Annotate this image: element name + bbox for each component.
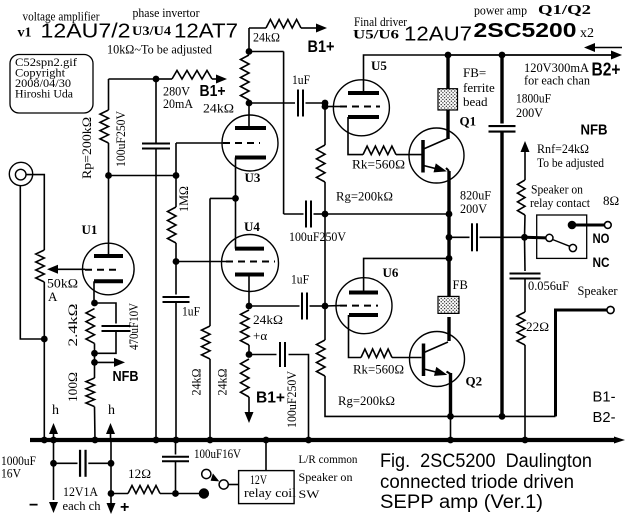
svg-text:B1+: B1+ bbox=[308, 37, 335, 56]
node bus 100uF250V bbox=[305, 437, 312, 444]
node V5 grid coupling bbox=[322, 100, 329, 107]
capacitor 820uF 200V bbox=[472, 223, 477, 251]
relay common contact circle bbox=[546, 234, 553, 241]
label 470uF10V rotated bbox=[126, 302, 141, 350]
ground bus rail bbox=[30, 438, 616, 442]
wire V3 plate lead bbox=[248, 103, 250, 128]
wire V6 plate feed bbox=[364, 258, 449, 292]
svg-text:U6: U6 bbox=[383, 265, 399, 280]
svg-text:12AU7/2: 12AU7/2 bbox=[41, 21, 131, 43]
wire NFB node to 0.056uF bbox=[524, 237, 527, 271]
wire Q1 emitter rail bbox=[447, 171, 450, 214]
relay NC contact circle bbox=[569, 244, 576, 251]
label B2+ bbox=[592, 60, 621, 80]
svg-text:To be adjusted: To be adjusted bbox=[537, 155, 604, 170]
node 1800uF junction bbox=[499, 52, 506, 59]
label NFB right bbox=[581, 122, 608, 139]
label minus bbox=[29, 497, 38, 514]
capacitor 100uF16V bbox=[162, 457, 189, 462]
switch wire terminal bbox=[199, 488, 209, 498]
wire pot bottom bbox=[43, 282, 45, 440]
wire output rail 3 bbox=[447, 258, 450, 297]
label 12AU7/2 bbox=[41, 21, 131, 43]
wire jack hot to pot bbox=[26, 175, 44, 250]
node V4 grid junction bbox=[173, 258, 180, 265]
label B1+ top bbox=[308, 37, 335, 56]
wire Rnf to node bbox=[524, 215, 527, 237]
node V3 plate junction bbox=[246, 100, 253, 107]
wire link to ground bus bbox=[450, 416, 452, 440]
label Q1 designator bbox=[460, 114, 477, 129]
label 22 ohm bbox=[526, 319, 549, 334]
wire cap left lead bbox=[284, 213, 304, 215]
label 12AU7 bbox=[404, 24, 472, 46]
wire main B2+ rail bbox=[448, 54, 611, 56]
node 2.4k bottom junction bbox=[91, 350, 98, 357]
node bus junction below Q2 bbox=[447, 437, 454, 444]
transistor Q1 2SC5200 bbox=[409, 128, 464, 183]
label SW bbox=[299, 487, 321, 501]
wire 820uF left lead bbox=[449, 236, 470, 238]
node 1000uF right junction bbox=[108, 460, 115, 467]
wire bead to Q2 collector bbox=[447, 317, 450, 341]
wire cap right lead to node bbox=[314, 213, 326, 215]
capacitor 100uF250V B1 filter bbox=[142, 144, 170, 149]
wire NO to terminal bbox=[576, 224, 604, 227]
svg-text:12AT7: 12AT7 bbox=[174, 21, 238, 43]
node 12 ohm junction bbox=[108, 490, 115, 497]
wire V3 cathode to V4 plate column bbox=[235, 158, 237, 249]
input jack inner bbox=[15, 169, 26, 180]
resistor 2.4k (V1 cathode) bbox=[86, 309, 95, 344]
svg-text:16V: 16V bbox=[1, 466, 22, 481]
label NFB left bbox=[113, 368, 139, 385]
svg-text:h: h bbox=[52, 403, 59, 418]
svg-text:relay contact: relay contact bbox=[530, 195, 590, 210]
label 1uF top bbox=[292, 72, 310, 87]
caption line 3 bbox=[380, 492, 543, 513]
resistor 22 ohm bbox=[517, 312, 525, 345]
wire to B1+ down arrow bbox=[248, 397, 250, 413]
svg-text:Q1/Q2: Q1/Q2 bbox=[538, 2, 591, 17]
wire Q2 emitter drop bbox=[449, 373, 452, 416]
label Rp=200k rotated bbox=[79, 117, 94, 179]
wire 1uF to V5 grid rail bbox=[306, 102, 326, 104]
label Rk=560 (Q1) bbox=[352, 157, 405, 172]
svg-text:U5/U6: U5/U6 bbox=[353, 27, 400, 42]
label bead bbox=[463, 94, 488, 109]
svg-text:B2+: B2+ bbox=[592, 60, 621, 80]
label To be adjusted bbox=[537, 155, 604, 170]
label C52spn2.gif bbox=[15, 55, 77, 69]
label 100ohm rotated bbox=[65, 372, 80, 402]
capacitor 1uF (V4 grid) bbox=[163, 297, 190, 302]
svg-text:2SC5200: 2SC5200 bbox=[474, 20, 577, 42]
label +a bbox=[253, 328, 267, 343]
node NFB takeoff junction bbox=[521, 234, 528, 241]
svg-text:24kΩ: 24kΩ bbox=[253, 312, 283, 327]
wire cap to ground drop bbox=[289, 355, 309, 441]
wire to B1+ arrow bbox=[217, 78, 221, 80]
wire 1uF to x325 node bbox=[310, 305, 326, 307]
node 2.4k top junction bbox=[91, 300, 98, 307]
label 1000uF bbox=[1, 453, 36, 468]
svg-text:22Ω: 22Ω bbox=[526, 319, 549, 334]
label 100uF250V rotated right bbox=[284, 370, 299, 428]
svg-text:v1: v1 bbox=[18, 26, 32, 41]
wire Rg2 bottom corner bbox=[325, 376, 556, 416]
capacitor 0.056uF bbox=[510, 274, 541, 279]
triode V5 bbox=[333, 80, 389, 136]
svg-text:2.4kΩ: 2.4kΩ bbox=[65, 304, 80, 347]
svg-text:Rk=560Ω: Rk=560Ω bbox=[353, 362, 404, 377]
svg-text:A: A bbox=[48, 289, 58, 304]
wire x325 rail upper bbox=[324, 103, 326, 145]
wire x325 to Rg2 bbox=[324, 306, 326, 340]
label U3 designator bbox=[245, 170, 261, 185]
relay NO contact bbox=[568, 221, 577, 230]
wire between junctions bbox=[94, 343, 96, 362]
label 2.4k rotated bbox=[65, 304, 80, 347]
svg-text:24kΩ: 24kΩ bbox=[189, 369, 204, 396]
capacitor 1800uF 200V bbox=[489, 126, 516, 132]
wire 12V plus drop bbox=[110, 440, 112, 503]
svg-text:100uF250V: 100uF250V bbox=[289, 229, 347, 244]
node speaker return junction bbox=[447, 413, 454, 420]
svg-text:B2-: B2- bbox=[593, 409, 616, 426]
label 50k bbox=[47, 276, 78, 291]
node coupling to V3 grid bbox=[173, 172, 180, 179]
svg-text:SW: SW bbox=[299, 487, 321, 501]
wire NFB arrow lead bbox=[524, 152, 526, 181]
arrow NFB (up) bbox=[521, 141, 530, 152]
label Copyright bbox=[15, 66, 66, 80]
wire V5 cathode hook bbox=[348, 117, 363, 155]
svg-text:1uF: 1uF bbox=[291, 272, 309, 287]
wire relay coil to bus bbox=[265, 440, 267, 471]
relay arm bbox=[553, 240, 570, 247]
wire to V4 grid bbox=[176, 261, 226, 263]
svg-text:U1: U1 bbox=[82, 222, 98, 237]
label U3/U4 designator bbox=[132, 23, 172, 38]
wire 12V minus drop bbox=[53, 440, 55, 500]
capacitor 100uF250V (B1 bypass) bbox=[280, 342, 285, 367]
arrow B2+ rail (right) bbox=[611, 51, 622, 60]
svg-text:B1+: B1+ bbox=[200, 83, 226, 100]
switch contact 2 open circle bbox=[219, 480, 228, 489]
wire to 1000uF bbox=[54, 462, 78, 464]
label plus bbox=[120, 499, 129, 516]
svg-text:1uF: 1uF bbox=[182, 304, 200, 319]
label 8 ohm bbox=[603, 193, 619, 208]
capacitor 100uF250V (mid coupling) bbox=[306, 201, 311, 228]
svg-text:100uF250V: 100uF250V bbox=[113, 110, 128, 167]
label NC bbox=[593, 254, 610, 270]
wire 820uF to NFB node bbox=[480, 236, 525, 238]
arrow pot wiper (left) bbox=[47, 265, 85, 274]
svg-text:B1-: B1- bbox=[593, 389, 616, 406]
label 100uF250V rotated left bbox=[113, 110, 128, 167]
wire Rp top bbox=[108, 79, 110, 110]
svg-text:24kΩ: 24kΩ bbox=[253, 30, 280, 45]
label h left bbox=[52, 403, 59, 418]
switch arm arrow bbox=[211, 473, 220, 481]
svg-text:24kΩ: 24kΩ bbox=[215, 369, 230, 396]
label 1uF (V4 grid) bbox=[182, 304, 200, 319]
svg-text:NFB: NFB bbox=[113, 368, 139, 385]
svg-text:12Ω: 12Ω bbox=[128, 466, 151, 481]
ferrite bead FB (Q1) bbox=[438, 89, 458, 110]
label 10k to be adjusted bbox=[107, 42, 212, 57]
label L/R common bbox=[299, 452, 358, 466]
node bootstrap junction bbox=[322, 211, 329, 218]
label Rg=200k (Q2) bbox=[338, 393, 395, 408]
label B1+ bottom bbox=[256, 390, 285, 407]
wire V4 cathode lead bbox=[248, 276, 250, 306]
capacitor 470uF10V bbox=[102, 326, 131, 331]
triode V3 bbox=[222, 115, 278, 171]
wire junction to x283 rail bbox=[249, 51, 284, 53]
node bus x210 bbox=[207, 437, 214, 444]
resistor Rg=200k (V5 grid leak) bbox=[317, 145, 326, 182]
svg-text:12V1A: 12V1A bbox=[63, 484, 99, 499]
wire x156 rail below cap to ground bus bbox=[155, 149, 157, 441]
input jack outer bbox=[9, 162, 32, 185]
svg-text:ferrite: ferrite bbox=[463, 80, 495, 95]
svg-text:24kΩ: 24kΩ bbox=[203, 101, 234, 116]
label B1+ (main) bbox=[200, 83, 226, 100]
wire 1uF cap bottom to ground bus bbox=[175, 302, 177, 440]
label 24k plate load bbox=[203, 101, 234, 116]
wire top 24k right lead bbox=[301, 27, 316, 29]
label B2- bbox=[593, 409, 616, 426]
node bus x176 bbox=[173, 437, 180, 444]
node cathode divider junction bbox=[246, 351, 253, 358]
wire to 470uF top bbox=[95, 303, 117, 324]
arrow heater h right (up) bbox=[106, 423, 115, 438]
wire x210 top bbox=[209, 198, 211, 326]
label v1 designator bbox=[18, 26, 32, 41]
node V6 plate junction bbox=[446, 255, 453, 262]
wire 100ohm top bbox=[94, 362, 96, 378]
wire 1000uF to plus line bbox=[88, 462, 111, 464]
wire between cathode resistors bbox=[248, 345, 250, 355]
svg-text:0.056uF: 0.056uF bbox=[528, 278, 569, 293]
label 16V bbox=[1, 466, 22, 481]
label relay contact bbox=[530, 195, 590, 210]
resistor 24k (bootstrap top) bbox=[266, 20, 301, 29]
arrow NFB injection (right) bbox=[114, 358, 125, 367]
svg-text:+: + bbox=[120, 499, 129, 516]
label 12V1A bbox=[63, 484, 99, 499]
speaker terminal circle bbox=[607, 306, 614, 313]
wire 100uF16V bottom lead bbox=[175, 461, 177, 493]
wire Q1 collector drop bbox=[446, 55, 449, 90]
wire 100ohm to ground bus bbox=[94, 407, 97, 440]
wire 1uF cap top lead bbox=[175, 262, 177, 295]
svg-text:+α: +α bbox=[253, 328, 267, 343]
label B1- bbox=[593, 389, 616, 406]
wire 22ohm to ground bus bbox=[524, 345, 526, 440]
label 1uF (V4 cathode) bbox=[291, 272, 309, 287]
label 100uF250V mid bbox=[289, 229, 347, 244]
svg-text:relay coil: relay coil bbox=[244, 485, 296, 500]
node V5 grid node bbox=[322, 103, 329, 110]
svg-text:power amp: power amp bbox=[474, 3, 527, 18]
label Speaker on bbox=[531, 182, 583, 197]
label 820uF bbox=[460, 188, 491, 203]
copyright box bbox=[10, 55, 93, 114]
node bus 100ohm bbox=[92, 437, 99, 444]
resistor 12 ohm bbox=[128, 486, 160, 494]
label NO bbox=[593, 230, 610, 246]
node V3 cathode junction bbox=[232, 195, 239, 202]
wire x156 rail top bbox=[155, 79, 157, 144]
svg-text:470uF10V: 470uF10V bbox=[126, 302, 141, 350]
label x2 bbox=[580, 26, 594, 41]
ferrite bead FB (Q2) bbox=[438, 296, 459, 313]
node V6 grid junction bbox=[322, 303, 329, 310]
svg-text:Rnf=24kΩ: Rnf=24kΩ bbox=[537, 141, 589, 156]
svg-text:1uF: 1uF bbox=[292, 72, 310, 87]
node 1800uF bottom junction bbox=[499, 413, 506, 420]
node output-bootstrap junction bbox=[446, 211, 453, 218]
node Q1 collector feed bbox=[445, 52, 452, 59]
wire Rp bottom to V1 plate node bbox=[108, 143, 110, 176]
label 1M rotated bbox=[176, 186, 191, 212]
node bus pot bbox=[41, 437, 48, 444]
wire output rail 2 bbox=[447, 237, 450, 258]
node plate resistor top junction bbox=[246, 48, 253, 55]
node bus 22ohm bbox=[522, 437, 529, 444]
wire x325 rail to bootstrap node bbox=[324, 182, 326, 214]
svg-text:bead: bead bbox=[463, 94, 488, 109]
node 100uF16V junction bbox=[172, 490, 179, 497]
wire x210 bottom to ground bus bbox=[209, 359, 211, 440]
svg-text:100uF250V: 100uF250V bbox=[284, 370, 299, 428]
wire 100uF16V top lead bbox=[175, 440, 177, 455]
svg-text:Q2: Q2 bbox=[466, 374, 483, 389]
node NFB injection junction bbox=[91, 359, 98, 366]
svg-text:200V: 200V bbox=[460, 201, 488, 216]
label 24k rotated left bbox=[189, 369, 204, 396]
wire V3 plate node to 1uF bbox=[249, 102, 295, 104]
wire 12ohm right lead bbox=[160, 493, 199, 495]
arrow B1+ feed (down) bbox=[245, 412, 254, 423]
label Q1/Q2 designator bbox=[538, 2, 591, 17]
resistor Rk=560 (V6) bbox=[361, 349, 392, 358]
label Speaker bbox=[578, 283, 619, 298]
svg-text:Q1: Q1 bbox=[460, 114, 477, 129]
svg-text:1800uF: 1800uF bbox=[516, 91, 551, 106]
svg-text:FB: FB bbox=[453, 278, 468, 292]
wire switch to relay coil bbox=[228, 484, 238, 486]
label FB (Q2 bead) bbox=[453, 278, 468, 292]
label FB= bbox=[463, 65, 486, 80]
wire NFB node to relay common bbox=[525, 236, 547, 240]
label A (taper) bbox=[48, 289, 58, 304]
label 280V bbox=[163, 84, 191, 99]
relay coil box bbox=[239, 471, 295, 504]
resistor 24k (V3 plate load) bbox=[241, 55, 250, 100]
wire V6 grid connection bbox=[325, 305, 340, 307]
label power amp bbox=[474, 3, 527, 18]
label 24k bootstrap bbox=[253, 30, 280, 45]
wire x283 rail down to 100uF cap bbox=[283, 52, 285, 215]
wire 1800uF rail lower bbox=[500, 132, 503, 417]
potentiometer 50k A bbox=[36, 250, 45, 282]
svg-text:FB=: FB= bbox=[463, 65, 486, 80]
triode V1 bbox=[83, 243, 135, 295]
label U5/U6 designator bbox=[353, 27, 400, 42]
svg-text:x2: x2 bbox=[580, 26, 594, 41]
arrow return rail (left) bbox=[584, 43, 622, 52]
resistor Rnf=24k bbox=[518, 180, 526, 215]
resistor Rk=560 (V5) bbox=[363, 146, 396, 155]
resistor 1M grid leak bbox=[168, 176, 177, 244]
wire bead to Q1 collector bbox=[446, 110, 449, 139]
resistor 10k ohm dropping (to be adjusted) bbox=[156, 71, 217, 80]
svg-text:SEPP amp (Ver.1): SEPP amp (Ver.1) bbox=[380, 492, 543, 513]
triode V4 bbox=[222, 235, 279, 292]
label 12 ohm bbox=[128, 466, 151, 481]
label U4 designator bbox=[244, 219, 260, 234]
label 2008/04/30 bbox=[15, 76, 71, 90]
svg-text:Speaker: Speaker bbox=[578, 283, 619, 298]
label Final driver bbox=[354, 14, 408, 29]
label for each chan bbox=[524, 73, 590, 88]
label 120V300mA bbox=[524, 60, 590, 75]
wire V5 plate lead bbox=[364, 55, 449, 93]
node bus heater bbox=[50, 437, 57, 444]
svg-text:phase invertor: phase invertor bbox=[133, 5, 201, 20]
svg-text:Rk=560Ω: Rk=560Ω bbox=[352, 157, 405, 172]
label Rnf=24k bbox=[537, 141, 589, 156]
label U6 designator bbox=[383, 265, 399, 280]
svg-text:200V: 200V bbox=[516, 105, 544, 120]
label relay coil bbox=[244, 485, 296, 500]
svg-text:for each chan: for each chan bbox=[524, 73, 590, 88]
svg-text:Rg=200kΩ: Rg=200kΩ bbox=[336, 189, 393, 204]
arrow 12V plus terminal (down) bbox=[107, 503, 116, 514]
wire V3 grid riser bbox=[176, 143, 225, 176]
wire Rk2 to Q2 base bbox=[392, 357, 422, 359]
node bus relay coil bbox=[263, 437, 270, 444]
label Speaker on (sw) bbox=[299, 470, 353, 484]
node bus x156 bbox=[153, 437, 160, 444]
label 20mA bbox=[163, 96, 194, 111]
wire Rk to Q1 base bbox=[396, 154, 422, 156]
label 1800uF bbox=[516, 91, 551, 106]
wire 12ohm left lead bbox=[111, 493, 128, 495]
svg-text:NO: NO bbox=[593, 230, 610, 246]
wire V6 cathode hook bbox=[349, 315, 362, 358]
svg-text:Rp=200kΩ: Rp=200kΩ bbox=[79, 117, 94, 179]
svg-text:B1+: B1+ bbox=[256, 390, 285, 407]
svg-text:20mA: 20mA bbox=[163, 96, 194, 111]
wire V1 plate bbox=[108, 176, 110, 257]
resistor 24k (V3 cathode load) bbox=[202, 326, 211, 359]
wire Q1 emitter link bbox=[446, 168, 449, 171]
caption line 1 bbox=[380, 451, 592, 472]
relay contact box bbox=[537, 215, 587, 258]
svg-text:−: − bbox=[29, 497, 38, 514]
label Hiroshi Uda bbox=[15, 87, 74, 101]
terminal NO circle bbox=[604, 222, 611, 229]
svg-text:L/R common: L/R common bbox=[299, 452, 358, 466]
wire 1M bottom to node bbox=[175, 243, 177, 262]
node V4 cathode junction bbox=[246, 303, 253, 310]
